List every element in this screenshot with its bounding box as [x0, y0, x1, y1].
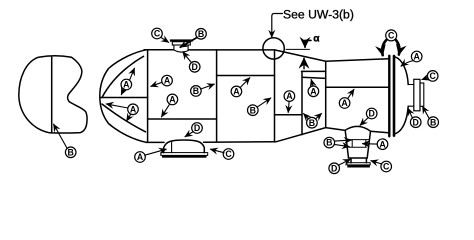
label A manhole	[135, 149, 167, 162]
label B right nozzle	[423, 106, 439, 127]
head inner seam arc upper	[102, 56, 144, 97]
label A head upper	[121, 68, 134, 94]
svg-text:A: A	[164, 76, 171, 86]
svg-text:B: B	[68, 147, 74, 157]
alpha reference line	[286, 48, 310, 50]
cone upper long seam	[302, 77, 326, 78]
svg-text:A: A	[341, 98, 348, 108]
UW-3(b) callout circle	[263, 38, 284, 59]
label A girth seam 1	[151, 75, 173, 86]
alpha dimension upper arrow	[305, 40, 311, 47]
label D right nozzle	[408, 108, 421, 127]
label A right head	[401, 51, 422, 66]
svg-text:A: A	[286, 91, 293, 101]
label D bottom nozzle	[329, 159, 350, 173]
svg-text:C: C	[383, 162, 390, 172]
manhole flange	[161, 153, 208, 156]
manhole flange black bar	[162, 155, 207, 157]
svg-text:D: D	[331, 163, 337, 173]
svg-text:D: D	[194, 123, 200, 133]
detached head outline	[19, 56, 87, 133]
long seam course 1	[148, 118, 217, 120]
head mid seam	[100, 97, 148, 99]
top nozzle flange black bar	[170, 39, 193, 41]
right head outline lower	[396, 106, 409, 133]
svg-text:C: C	[154, 29, 161, 39]
right nozzle face plate	[420, 83, 424, 106]
label D right shell nozzle weld	[360, 108, 377, 125]
label A head lower	[106, 104, 138, 121]
right head outline upper	[395, 57, 408, 85]
svg-text:A: A	[123, 80, 130, 90]
svg-text:C: C	[430, 71, 437, 81]
right nozzle neck	[408, 85, 414, 107]
svg-text:B: B	[430, 117, 436, 127]
svg-text:See UW-3(b): See UW-3(b)	[283, 8, 354, 22]
svg-text:A: A	[137, 152, 144, 162]
label C right nozzle	[422, 71, 438, 82]
alpha dimension lower arrow	[303, 58, 305, 69]
long seam course 2	[217, 75, 275, 77]
manhole dome	[164, 140, 205, 153]
label D manhole	[185, 123, 202, 137]
label B top nozzle	[180, 29, 206, 48]
svg-text:D: D	[369, 109, 375, 119]
label D top nozzle	[183, 52, 200, 72]
svg-text:B: B	[326, 138, 332, 148]
svg-text:A: A	[310, 86, 317, 96]
label C right flange thick arrows	[382, 30, 399, 55]
svg-text:A: A	[169, 95, 176, 105]
svg-text:α: α	[313, 34, 320, 45]
manhole dome seam	[171, 141, 173, 153]
right flange head side plate	[393, 56, 396, 136]
svg-text:B: B	[309, 118, 315, 128]
bottom nozzle flange	[347, 163, 370, 165]
svg-text:A: A	[130, 104, 137, 114]
label B girth seam 3	[248, 98, 271, 116]
bottom nozzle hub	[349, 158, 368, 163]
label A long seam course 2	[231, 78, 250, 97]
top nozzle neck	[174, 45, 188, 52]
svg-text:C: C	[225, 149, 232, 159]
top nozzle flange body	[172, 42, 190, 45]
label A cone lower long seam	[284, 91, 295, 113]
svg-text:A: A	[414, 52, 421, 62]
svg-text:B: B	[198, 29, 204, 39]
label A bottom nozzle	[363, 139, 388, 150]
svg-text:B: B	[250, 105, 256, 115]
head inner seam arc lower	[102, 104, 146, 132]
label B bottom nozzle	[324, 137, 351, 148]
small shell long seam	[326, 86, 389, 88]
label A cone upper long seam	[308, 80, 319, 97]
vessel bottom line	[146, 128, 388, 143]
label B girth seam 2	[191, 84, 215, 96]
vessel top line	[144, 50, 388, 62]
bottom nozzle flange black bar	[347, 165, 370, 168]
bottom nozzle body	[345, 126, 370, 158]
label C bottom nozzle	[371, 161, 392, 172]
right nozzle flange ring	[414, 79, 420, 111]
label C manhole	[211, 149, 234, 160]
right flange shell side plate	[388, 56, 390, 137]
label A small shell long seam	[339, 89, 354, 108]
main vessel left head outline	[100, 50, 146, 143]
svg-text:A: A	[379, 139, 386, 149]
svg-text:B: B	[193, 86, 199, 96]
UW-3(b) leader	[272, 14, 283, 38]
label A long seam course 1	[162, 94, 178, 117]
svg-text:A: A	[233, 87, 240, 97]
detached head seam	[51, 57, 53, 133]
svg-text:C: C	[388, 31, 395, 41]
cone mid top line	[302, 70, 326, 72]
label B cone girth seams	[304, 113, 322, 128]
girth seam 3	[274, 50, 276, 142]
label B detached head	[54, 124, 76, 157]
bottom nozzle internal plate	[346, 140, 368, 148]
cone lower long seam	[275, 114, 303, 116]
girth seam 1	[147, 50, 149, 143]
label C top nozzle	[152, 28, 169, 42]
girth seam 4	[325, 61, 327, 127]
cone mid girth seam	[301, 71, 303, 134]
svg-text:D: D	[192, 62, 198, 72]
girth seam 2	[216, 50, 218, 142]
svg-text:D: D	[413, 117, 419, 127]
